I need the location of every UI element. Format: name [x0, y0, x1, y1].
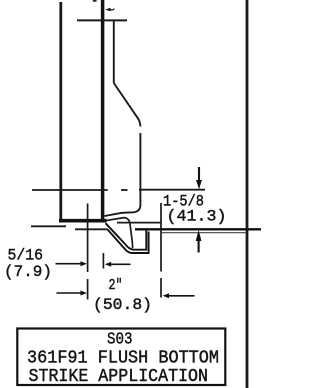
door bevel diagonal with curve — [114, 83, 141, 127]
centerline right segment — [139, 189, 205, 191]
5/16 dimension right arrow — [105, 262, 131, 267]
1-5/8 up arrow — [196, 230, 202, 253]
dimension extension line A (x87.6) — [87, 204, 89, 273]
extension / strike back vertical — [160, 203, 162, 272]
title box — [17, 329, 225, 386]
centerline left segment — [32, 189, 108, 191]
secondary step line — [162, 232, 246, 234]
2in dimension left arrow — [57, 291, 87, 296]
small arrow at top — [105, 8, 114, 12]
centerline dash — [121, 189, 128, 191]
left floor line — [31, 225, 66, 227]
svg-text:(50.8): (50.8) — [93, 296, 152, 314]
frame bottom (thick) — [59, 219, 107, 223]
svg-text:361F91 FLUSH BOTTOM: 361F91 FLUSH BOTTOM — [27, 349, 219, 369]
door bottom curve — [105, 206, 141, 217]
svg-text:(7.9): (7.9) — [4, 263, 52, 281]
top-left speck — [93, 0, 97, 2]
dimension extension line B (x103.4) — [102, 253, 104, 269]
bottom reference line (long) — [135, 228, 261, 230]
svg-text:STRIKE APPLICATION: STRIKE APPLICATION — [29, 367, 209, 387]
strike lip outer surface — [107, 229, 148, 253]
strike lip inner surface — [106, 223, 147, 250]
svg-text:S03: S03 — [107, 331, 133, 350]
strike box top line — [117, 222, 162, 224]
under-frame line — [75, 228, 108, 230]
strike lip top edge — [105, 218, 133, 248]
frame face vertical (thin, left) — [59, 2, 62, 222]
right border line — [246, 0, 249, 388]
frame stop vertical (thick) — [101, 0, 105, 222]
door edge vertical (lower, after gap) — [139, 133, 141, 206]
top horizontal line — [77, 19, 127, 21]
svg-text:5/16: 5/16 — [8, 247, 44, 265]
svg-text:2": 2" — [109, 277, 123, 294]
door edge inner vertical — [113, 20, 115, 83]
2in dimension right arrow — [163, 293, 195, 298]
5/16 dimension left arrow — [56, 261, 87, 266]
1-5/8 down arrow — [196, 167, 202, 189]
svg-text:(41.3): (41.3) — [167, 208, 227, 226]
